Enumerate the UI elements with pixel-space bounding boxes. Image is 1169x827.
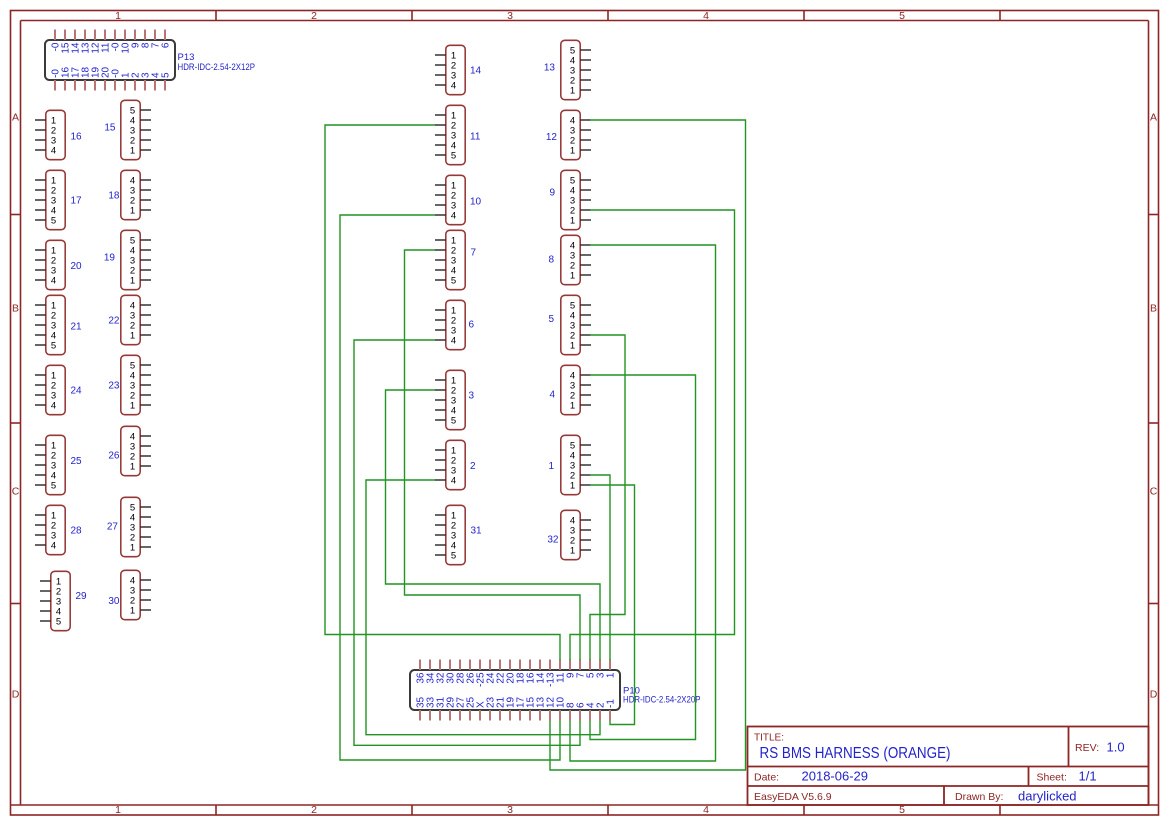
svg-text:1: 1 xyxy=(130,542,135,553)
svg-text:5: 5 xyxy=(51,340,56,351)
svg-text:17: 17 xyxy=(71,196,83,207)
svg-text:4: 4 xyxy=(451,80,456,91)
svg-text:B: B xyxy=(12,303,19,315)
svg-text:7: 7 xyxy=(471,248,477,259)
svg-text:5: 5 xyxy=(451,415,456,426)
svg-text:6: 6 xyxy=(161,42,172,48)
svg-text:13: 13 xyxy=(544,63,556,74)
svg-text:REV:: REV: xyxy=(1075,742,1099,754)
svg-text:1: 1 xyxy=(130,330,135,341)
title block title value xyxy=(760,745,951,762)
connector 19 (5-pin header) xyxy=(104,230,151,289)
svg-text:A: A xyxy=(12,112,19,124)
svg-text:24: 24 xyxy=(71,386,83,397)
svg-text:4: 4 xyxy=(703,804,709,816)
title block Date value xyxy=(802,769,869,784)
connector 22 (4-pin header) xyxy=(108,295,151,344)
svg-text:1: 1 xyxy=(115,10,121,22)
svg-text:1: 1 xyxy=(115,804,121,816)
svg-text:11: 11 xyxy=(470,132,481,143)
svg-text:4: 4 xyxy=(51,540,56,551)
wire net 12: connector 12 pin 4 to P10 pin 12 xyxy=(550,120,746,770)
svg-text:TITLE:: TITLE: xyxy=(754,733,784,744)
wire net 10: connector 10 pin 4 to P10 pin 10 xyxy=(340,215,560,760)
svg-text:15: 15 xyxy=(104,123,116,134)
svg-text:1: 1 xyxy=(570,340,575,351)
svg-text:Sheet:: Sheet: xyxy=(1037,772,1067,784)
connector 15 (5-pin header) xyxy=(104,100,151,159)
connector 5 (5-pin header) xyxy=(548,295,591,354)
svg-text:4: 4 xyxy=(451,475,456,486)
svg-text:1.0: 1.0 xyxy=(1107,740,1125,755)
wire net 9: connector 9 pin 2 to P10 pin 9 xyxy=(570,210,735,660)
wire net 5: connector 5 pin 2 to P10 pin 5 xyxy=(590,335,625,660)
svg-text:darylicked: darylicked xyxy=(1018,789,1077,804)
svg-text:5: 5 xyxy=(899,10,905,22)
svg-text:5: 5 xyxy=(56,616,61,627)
connector 18 (4-pin header) xyxy=(108,170,151,219)
svg-text:4: 4 xyxy=(51,400,56,411)
svg-text:1: 1 xyxy=(130,605,135,616)
wire net 1: connector 1 pin 2 to P10 pin 1 xyxy=(590,475,610,660)
svg-text:1: 1 xyxy=(606,672,617,678)
svg-text:2018-06-29: 2018-06-29 xyxy=(802,769,869,784)
wire net 4: connector 4 pin 4 to P10 pin 4 xyxy=(590,375,696,740)
svg-text:D: D xyxy=(12,689,20,701)
svg-text:1: 1 xyxy=(130,205,135,216)
svg-text:1: 1 xyxy=(130,461,135,472)
svg-text:-1: -1 xyxy=(606,699,617,708)
svg-text:1/1: 1/1 xyxy=(1079,769,1097,784)
svg-text:4: 4 xyxy=(703,10,709,22)
svg-text:C: C xyxy=(12,486,20,498)
svg-text:10: 10 xyxy=(470,197,482,208)
connector 31 (5-pin header) xyxy=(435,505,482,564)
svg-text:1: 1 xyxy=(570,215,575,226)
svg-text:1: 1 xyxy=(570,480,575,491)
svg-text:2: 2 xyxy=(311,10,317,22)
connector P10 HDR-IDC-2.54-2X20P xyxy=(410,660,701,721)
wire net 7: connector 7 pin 2 to P10 pin 7 xyxy=(405,250,581,660)
svg-text:25: 25 xyxy=(71,456,83,467)
svg-text:4: 4 xyxy=(51,275,56,286)
connector 7 (5-pin header) xyxy=(435,230,477,289)
svg-text:27: 27 xyxy=(107,522,119,533)
svg-text:16: 16 xyxy=(71,132,83,143)
wire net -1: connector 1 pin 1 to P10 pin -1 xyxy=(590,485,635,725)
svg-text:5: 5 xyxy=(451,550,456,561)
connector 32 (4-pin header) xyxy=(547,510,591,559)
svg-text:5: 5 xyxy=(451,275,456,286)
svg-text:29: 29 xyxy=(76,591,88,602)
title block REV value 1.0 xyxy=(1107,740,1125,755)
connector 10 (4-pin header) xyxy=(435,175,482,224)
svg-text:EasyEDA V5.6.9: EasyEDA V5.6.9 xyxy=(754,791,832,803)
svg-text:23: 23 xyxy=(108,381,120,392)
connector 29 (5-pin header) xyxy=(40,571,87,630)
svg-text:5: 5 xyxy=(548,314,554,325)
svg-text:9: 9 xyxy=(549,188,555,199)
title block Drawn By value darylicked xyxy=(1018,789,1077,804)
svg-text:RS BMS HARNESS (ORANGE): RS BMS HARNESS (ORANGE) xyxy=(760,745,951,762)
title block REV label xyxy=(1075,742,1099,754)
svg-text:5: 5 xyxy=(451,150,456,161)
svg-text:HDR-IDC-2.54-2X12P: HDR-IDC-2.54-2X12P xyxy=(178,62,256,73)
svg-text:2: 2 xyxy=(470,461,476,472)
svg-text:A: A xyxy=(1150,112,1157,124)
connector 23 (5-pin header) xyxy=(108,355,151,414)
svg-text:12: 12 xyxy=(546,132,558,143)
connector 4 (4-pin header) xyxy=(549,365,591,414)
connector 3 (5-pin header) xyxy=(435,370,475,429)
svg-text:19: 19 xyxy=(104,253,116,264)
svg-text:Drawn By:: Drawn By: xyxy=(955,791,1003,803)
connector 30 (4-pin header) xyxy=(108,570,151,619)
svg-text:5: 5 xyxy=(161,72,172,78)
connector 2 (4-pin header) xyxy=(435,440,476,489)
svg-text:5: 5 xyxy=(899,804,905,816)
connector 24 (4-pin header) xyxy=(35,365,82,414)
connector 11 (5-pin header) xyxy=(435,105,481,164)
svg-text:B: B xyxy=(1150,303,1157,315)
svg-text:3: 3 xyxy=(507,804,513,816)
svg-text:14: 14 xyxy=(470,66,482,77)
svg-text:1: 1 xyxy=(130,145,135,156)
svg-text:5: 5 xyxy=(51,215,56,226)
title block Sheet label xyxy=(1037,772,1067,784)
svg-text:22: 22 xyxy=(108,316,120,327)
frame column numbers top xyxy=(115,10,905,22)
svg-text:21: 21 xyxy=(71,322,83,333)
frame column numbers bottom xyxy=(115,804,905,816)
connector P13 HDR-IDC-2.54-2X12P xyxy=(45,30,255,91)
frame row letters left xyxy=(12,112,20,701)
connector 20 (4-pin header) xyxy=(35,240,82,289)
svg-text:1: 1 xyxy=(548,461,554,472)
svg-text:1: 1 xyxy=(570,400,575,411)
connector 1 (5-pin header) xyxy=(548,435,591,494)
svg-text:4: 4 xyxy=(51,145,56,156)
svg-text:1: 1 xyxy=(130,275,135,286)
connector 21 (5-pin header) xyxy=(35,295,82,354)
svg-text:4: 4 xyxy=(549,390,555,401)
connector 17 (5-pin header) xyxy=(35,170,82,229)
title block EasyEDA version xyxy=(754,791,832,803)
svg-text:5: 5 xyxy=(51,480,56,491)
title block Sheet value 1/1 xyxy=(1079,769,1097,784)
connector 26 (4-pin header) xyxy=(108,426,151,475)
svg-text:8: 8 xyxy=(548,255,554,266)
title block xyxy=(748,727,1149,806)
svg-text:D: D xyxy=(1150,689,1158,701)
svg-text:Date:: Date: xyxy=(754,772,779,784)
svg-text:4: 4 xyxy=(451,335,456,346)
svg-text:28: 28 xyxy=(71,526,83,537)
svg-text:1: 1 xyxy=(570,145,575,156)
connector 12 (4-pin header) xyxy=(546,110,591,159)
wire net 3: connector 3 pin 2 to P10 pin 3 xyxy=(386,390,601,660)
connector 14 (4-pin header) xyxy=(435,45,482,94)
connector 25 (5-pin header) xyxy=(35,435,82,494)
svg-text:32: 32 xyxy=(547,535,559,546)
svg-text:4: 4 xyxy=(451,210,456,221)
svg-text:6: 6 xyxy=(469,320,475,331)
svg-text:30: 30 xyxy=(108,596,120,607)
svg-text:26: 26 xyxy=(108,451,120,462)
connector 27 (5-pin header) xyxy=(107,497,151,556)
svg-text:18: 18 xyxy=(108,191,120,202)
title block Date label xyxy=(754,772,779,784)
connector 6 (4-pin header) xyxy=(435,300,475,349)
connector 16 (4-pin header) xyxy=(35,110,82,159)
wire net 6: connector 6 pin 4 to P10 pin 6 xyxy=(354,340,580,745)
svg-text:3: 3 xyxy=(507,10,513,22)
svg-text:1: 1 xyxy=(570,270,575,281)
svg-text:1: 1 xyxy=(570,85,575,96)
connector 9 (5-pin header) xyxy=(549,170,591,229)
connector 8 (4-pin header) xyxy=(548,235,591,284)
title block Drawn By label xyxy=(955,791,1003,803)
svg-text:31: 31 xyxy=(471,526,483,537)
connector 28 (4-pin header) xyxy=(35,505,82,554)
title block TITLE label xyxy=(754,733,784,744)
wire net 11: connector 11 pin 2 to P10 pin 11 xyxy=(325,125,560,660)
svg-text:1: 1 xyxy=(570,545,575,556)
wire net 2: connector 2 pin 4 to P10 pin 2 xyxy=(366,480,600,735)
wire net 8: connector 8 pin 4 to P10 pin 8 xyxy=(570,245,716,761)
connector 13 (5-pin header) xyxy=(544,40,591,99)
svg-text:20: 20 xyxy=(71,261,83,272)
frame row letters right xyxy=(1150,112,1158,701)
svg-text:1: 1 xyxy=(130,400,135,411)
svg-text:3: 3 xyxy=(469,391,475,402)
svg-text:C: C xyxy=(1150,486,1158,498)
svg-text:2: 2 xyxy=(311,804,317,816)
